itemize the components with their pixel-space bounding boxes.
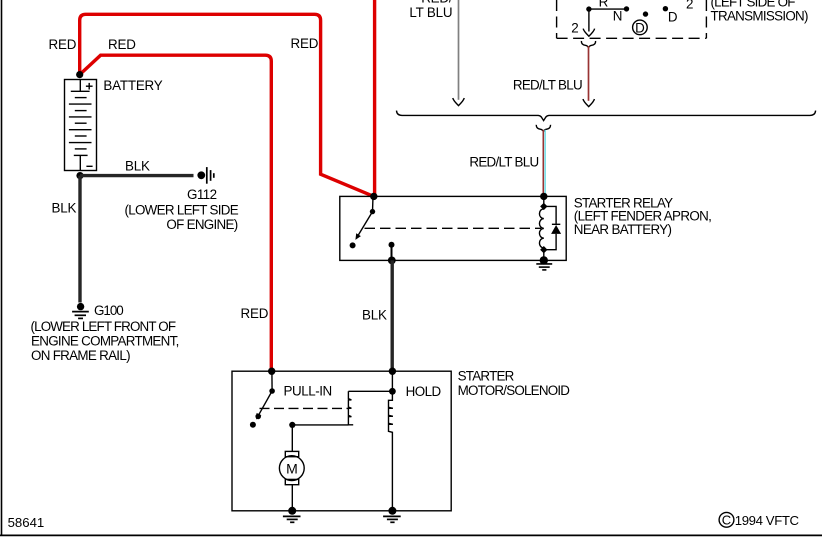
wire W8 LT BLU tracer <box>544 130 546 196</box>
ground G112 <box>197 167 213 184</box>
svg-text:C: C <box>722 513 731 528</box>
ground (relay coil) <box>536 264 552 270</box>
starter relay box <box>340 196 566 260</box>
diode D1 (clamp) <box>544 206 561 249</box>
svg-text:HOLD: HOLD <box>406 384 442 399</box>
node relay output <box>389 242 395 248</box>
svg-text:R: R <box>599 0 609 9</box>
relay switch <box>350 196 376 248</box>
connector cup (below brace) <box>536 125 550 132</box>
svg-text:RED: RED <box>241 306 269 321</box>
svg-text:PULL-IN: PULL-IN <box>284 384 332 399</box>
arrow end of W6 <box>583 99 594 107</box>
svg-text:RED: RED <box>49 37 77 52</box>
left border <box>1 0 3 535</box>
motor M <box>279 425 304 511</box>
wire W8 RED/LT BLU to relay (red part) <box>542 130 544 196</box>
svg-text:MOTOR/SOLENOID: MOTOR/SOLENOID <box>458 383 571 398</box>
ground (hold coil) <box>383 516 401 522</box>
svg-text:2: 2 <box>571 21 578 36</box>
pull-in coil top lead <box>348 390 392 392</box>
svg-text:RED: RED <box>291 36 319 51</box>
starter motor/solenoid box <box>232 371 451 511</box>
svg-text:OF ENGINE): OF ENGINE) <box>166 217 237 232</box>
solenoid mechanical dashed link <box>260 407 349 409</box>
node contact 1 <box>624 6 629 11</box>
node battery negative <box>76 172 83 179</box>
svg-text:BATTERY: BATTERY <box>103 78 162 93</box>
transmission range sensor (partial, top) <box>557 0 707 38</box>
wire W6 RED/LT BLU from trans <box>588 46 590 101</box>
svg-text:G112: G112 <box>187 187 217 202</box>
svg-text:M: M <box>286 460 298 476</box>
wire W9 BLK relay to solenoid <box>391 260 394 371</box>
hold coil L3 <box>389 371 393 511</box>
svg-text:1994 VFTC: 1994 VFTC <box>735 513 800 528</box>
node pull-in to motor <box>289 422 295 428</box>
relay output wire inside box <box>391 245 393 261</box>
node motor ground at box edge <box>288 507 296 515</box>
node contact 3 <box>663 6 668 11</box>
svg-text:D: D <box>635 20 645 35</box>
svg-text:(LOWER LEFT FRONT OF: (LOWER LEFT FRONT OF <box>31 319 176 334</box>
svg-text:ON FRAME RAIL): ON FRAME RAIL) <box>31 348 130 363</box>
node trans common <box>586 6 591 11</box>
battery B1 <box>65 80 97 171</box>
svg-text:TRANSMISSION): TRANSMISSION) <box>711 9 809 24</box>
svg-text:RED/LT BLU: RED/LT BLU <box>513 77 582 92</box>
svg-text:LT BLU: LT BLU <box>409 5 452 20</box>
svg-text:BLK: BLK <box>362 308 387 323</box>
arrow end of W7 <box>453 98 464 106</box>
node solenoid BLK input <box>389 368 396 375</box>
splice brace <box>397 111 816 121</box>
node relay coil top <box>540 193 547 200</box>
svg-text:G100: G100 <box>94 303 123 318</box>
svg-text:(LOWER LEFT SIDE: (LOWER LEFT SIDE <box>124 202 238 217</box>
node battery positive <box>76 71 83 78</box>
ground (motor) <box>283 516 301 522</box>
wire W1 RED battery to relay (up over top) <box>80 14 374 196</box>
copyright symbol <box>719 512 734 527</box>
trans box left edge <box>556 0 558 38</box>
ground G100 <box>72 303 89 319</box>
relay mechanical dashed link <box>365 227 542 229</box>
wire W5 BLK battery negative to G100 <box>78 176 81 303</box>
node contact 2 <box>643 11 648 16</box>
svg-text:N: N <box>613 9 623 24</box>
node relay ground at box edge <box>540 256 548 264</box>
circled D indicator <box>633 20 648 35</box>
svg-text:STARTER: STARTER <box>458 369 515 384</box>
svg-text:RED: RED <box>108 37 136 52</box>
solenoid switch <box>250 371 275 428</box>
node hold ground at box edge <box>388 507 396 515</box>
connector cup (below trans box) <box>581 41 595 48</box>
svg-text:2: 2 <box>686 0 693 11</box>
svg-text:RED/LT BLU: RED/LT BLU <box>469 155 538 170</box>
wiper line to R contact <box>589 8 627 10</box>
svg-text:BLK: BLK <box>52 200 77 215</box>
pull-in coil bottom lead <box>292 424 348 426</box>
trans pin 2 output with arrow <box>583 9 594 36</box>
svg-text:BLK: BLK <box>125 159 150 174</box>
wire W7 RED/LT BLU (gray) from top <box>458 0 460 100</box>
svg-text:D: D <box>668 10 678 25</box>
node solenoid RED input <box>268 368 275 375</box>
svg-text:NEAR BATTERY): NEAR BATTERY) <box>574 222 672 237</box>
node relay input (red wires) <box>370 193 377 200</box>
trans box right edge <box>705 0 707 38</box>
wire W3 RED battery to starter solenoid <box>80 55 272 371</box>
node hold coil top <box>389 388 396 395</box>
relay coil L1 <box>539 196 547 260</box>
svg-text:ENGINE COMPARTMENT,: ENGINE COMPARTMENT, <box>31 334 179 349</box>
trans box bottom edge <box>557 37 707 39</box>
bottom border <box>0 534 822 536</box>
node relay output at box edge <box>388 257 396 265</box>
wire W2 RED vertical feed to relay <box>373 0 376 196</box>
wire W4 BLK battery negative to G112 <box>80 174 194 177</box>
pull-in coil L2 <box>348 391 353 425</box>
svg-text:58641: 58641 <box>8 515 45 530</box>
